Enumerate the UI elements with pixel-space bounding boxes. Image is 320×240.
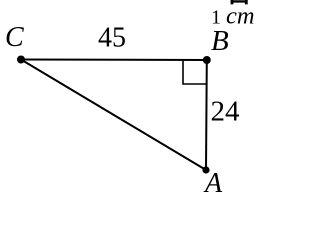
svg-text:A: A	[203, 168, 223, 199]
svg-text:24: 24	[211, 96, 241, 128]
wire side BA	[205, 60, 208, 170]
svg-text:C: C	[5, 22, 24, 53]
node C	[17, 56, 25, 64]
svg-text:B: B	[211, 25, 229, 57]
right angle mark at B	[183, 61, 207, 85]
wire side CB	[21, 59, 207, 62]
svg-text:45: 45	[98, 23, 126, 54]
scale bar (1 cm unit marker, clipped at top)	[231, 0, 248, 2]
node A	[202, 166, 209, 173]
wire side CA (hypotenuse)	[21, 60, 206, 171]
node B	[203, 56, 211, 64]
